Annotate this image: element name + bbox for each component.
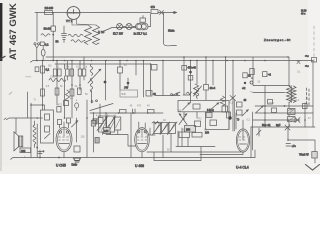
wire x131 xyxy=(130,113,132,158)
resistor R heater dropper (zigzag) xyxy=(85,25,92,45)
transformer secondary block 2 xyxy=(288,117,295,122)
junction xyxy=(36,147,38,149)
feedback coil dashes xyxy=(307,88,310,105)
capacitor C above lamps xyxy=(140,18,146,22)
resistor R21 xyxy=(250,69,254,75)
capacitor C12 xyxy=(286,144,291,147)
capacitor C11 xyxy=(67,118,71,123)
wires under can xyxy=(184,112,197,120)
tuning capacitor CV2 xyxy=(107,116,115,132)
capacitor C10 xyxy=(58,120,62,125)
trimmer CV3 xyxy=(115,117,121,130)
capacitor C7 (dot) xyxy=(127,82,130,85)
tube V3 UCL4 (output) xyxy=(236,129,249,152)
X mark mid xyxy=(230,96,236,101)
wire drop x42.5 xyxy=(42,61,44,111)
resistor R31 xyxy=(222,106,228,112)
wire drop x150.5 xyxy=(150,64,152,95)
pins above V1 xyxy=(60,122,69,128)
resistor R6b xyxy=(78,69,81,76)
wire y113 xyxy=(90,112,163,114)
wire left vertical xyxy=(36,13,38,42)
resistor R20 xyxy=(263,72,267,77)
coil in can 2 xyxy=(45,126,50,132)
trimmer CV4 xyxy=(154,123,161,134)
electrolytic C (oval) xyxy=(41,49,45,56)
capacitor C6 xyxy=(118,67,123,73)
resistor R30 zigzag xyxy=(220,96,224,106)
mains plug P xyxy=(34,43,36,45)
transformer secondary block 1 xyxy=(288,109,295,115)
capacitor C10b xyxy=(57,107,61,113)
capacitor block 32+32 box xyxy=(51,26,56,31)
wire drop x64.5 xyxy=(65,61,68,119)
resistor R22 hatched xyxy=(312,152,317,159)
wire drop x143.5 xyxy=(143,61,145,98)
resistor R11 xyxy=(74,146,80,152)
resistor R27b (dark) xyxy=(93,119,97,124)
tick mark margin xyxy=(26,76,32,78)
junction blob xyxy=(228,116,231,119)
resistor R7 xyxy=(70,89,74,96)
antenna terminal right edge xyxy=(313,26,315,62)
IF can T1 xyxy=(41,110,54,143)
wire: top mains rail xyxy=(35,12,173,14)
resistor 473 on rail xyxy=(151,10,158,14)
tick mark margin 2 xyxy=(9,92,12,95)
dial lamp La1 xyxy=(117,24,123,30)
electrolytic C+ xyxy=(38,150,42,158)
rectifier tube U1 (circle) xyxy=(67,7,80,20)
capacitor C13 xyxy=(182,66,187,71)
wires mid verticals xyxy=(87,100,106,158)
wires right grid xyxy=(251,106,315,127)
zigzag small xyxy=(152,122,159,125)
resistor R19 xyxy=(243,73,247,78)
output transformer Tr primary xyxy=(30,103,32,158)
dial lamp La2 xyxy=(126,24,132,30)
resistor R25 xyxy=(204,85,209,91)
resistor R34 xyxy=(272,108,277,113)
resistor R33 xyxy=(268,100,273,105)
wire drop x136 xyxy=(135,61,137,76)
output to ground chain xyxy=(288,127,315,163)
coil box on wire xyxy=(120,110,127,114)
resistor R9 xyxy=(146,91,152,97)
resistor R14 (hatched) xyxy=(104,128,111,134)
resistor R15 (hatched box) xyxy=(185,126,196,133)
variable arrow inside can xyxy=(183,103,191,111)
capacitor C 0,1 xyxy=(40,42,44,46)
wire x227 xyxy=(225,57,227,112)
tube V1 UCH5 xyxy=(56,127,72,151)
resistor R1 xyxy=(41,66,45,73)
coil box inside can xyxy=(193,104,200,109)
wire right of V1 xyxy=(76,118,78,142)
resistor R3b xyxy=(58,69,61,76)
osc coil L3 xyxy=(196,88,199,98)
resistor R18 xyxy=(303,104,308,109)
pins above V2 xyxy=(139,122,145,128)
variable arrow xyxy=(256,106,264,113)
osc can box xyxy=(178,101,229,112)
wire lamp chain xyxy=(104,28,136,32)
resistor R26 xyxy=(64,101,69,106)
wire right of V3 xyxy=(253,112,260,150)
bus B (main) xyxy=(30,61,313,63)
resistor squiggle c xyxy=(41,34,50,37)
wire drop x72 xyxy=(72,57,84,118)
capacitor C16 xyxy=(227,112,231,118)
capacitor C15 xyxy=(237,110,243,115)
resistor R27 (dark) xyxy=(95,138,99,144)
bus C xyxy=(55,63,150,65)
variable arrow in can 2 xyxy=(210,103,219,111)
arrow at end of top rail xyxy=(173,12,176,14)
resistor R7b xyxy=(78,88,82,95)
wire xyxy=(123,14,151,27)
wire drop x105.5 xyxy=(105,61,107,101)
coil L1 squiggle xyxy=(49,79,66,82)
wire to speaker xyxy=(6,92,42,133)
capacitor C8 xyxy=(133,109,136,114)
IF can box (dashed) xyxy=(120,90,138,97)
resistor squiggle b xyxy=(71,40,85,43)
coil L2 antenna (loops) xyxy=(90,64,93,75)
resistor R6 xyxy=(70,69,73,76)
smudge top-left margin xyxy=(1,56,6,59)
cap small oval xyxy=(75,103,79,108)
trimmer CV5 xyxy=(162,123,169,134)
ground arrow V xyxy=(306,165,320,171)
coil in can xyxy=(45,114,50,120)
resistor R0 xyxy=(35,67,39,72)
speaker field coil box xyxy=(20,148,31,153)
wire x234.5 xyxy=(234,100,236,131)
node: dial rail drop xyxy=(160,11,164,15)
resistor R4 xyxy=(55,88,59,95)
bus A xyxy=(46,56,288,58)
wire top of trafo xyxy=(31,105,45,110)
wire drop x157 xyxy=(162,61,164,96)
X at 287,127 xyxy=(285,125,290,130)
capacitor C14 xyxy=(237,102,243,107)
wire drop x233 xyxy=(232,61,234,132)
resistor R2 xyxy=(41,89,45,96)
binding edge dark strip xyxy=(0,3,2,61)
piezo symbol xyxy=(74,158,81,162)
tube V2 UBF xyxy=(135,128,150,152)
wire drop x213 xyxy=(212,61,214,86)
band switch S2 xyxy=(155,94,190,97)
bottom rail xyxy=(13,157,255,159)
X crossing xyxy=(179,114,187,125)
wire drop x53 xyxy=(52,13,54,27)
resistor R5 xyxy=(66,69,69,76)
wire drop x190.5 xyxy=(190,61,192,104)
resistor R8 zigzag xyxy=(66,90,70,101)
wire drop x206 xyxy=(205,57,207,100)
resistor R28 (hatched) xyxy=(206,113,212,118)
resistor R24 zigzag variable xyxy=(194,84,199,96)
resistor R6c xyxy=(82,69,85,76)
resistor R23 xyxy=(188,76,193,81)
resistor R12 xyxy=(91,121,95,127)
electrolytic C+ (bar stack) xyxy=(62,34,67,40)
junction dots xyxy=(264,105,266,107)
paper background xyxy=(0,0,320,174)
trimmer CV6 xyxy=(169,123,176,134)
variable arrow through L2 xyxy=(88,69,101,83)
wires under V2 xyxy=(149,128,155,135)
zigzag small right xyxy=(186,92,192,95)
box R17 xyxy=(192,133,202,138)
fuse Si on top rail xyxy=(45,11,53,15)
resistor R29 xyxy=(210,120,217,126)
dial lamps La3 La4 (twin) xyxy=(136,23,149,30)
junction dots row1 xyxy=(42,60,44,62)
output transformer primary coil xyxy=(287,86,292,102)
resistor R3 xyxy=(53,69,56,76)
coil box 2 xyxy=(148,110,155,114)
wave switch lever xyxy=(90,104,113,111)
wire under tuning gang xyxy=(103,130,137,146)
tuning capacitor CV1 xyxy=(99,116,107,132)
wire drop x57 xyxy=(56,61,58,106)
resistor R32 xyxy=(195,121,201,127)
box R16 xyxy=(179,132,190,138)
resistor squiggle a xyxy=(68,34,83,37)
loudspeaker LS xyxy=(14,132,19,151)
variable arrow xyxy=(72,121,79,128)
resistor R13 xyxy=(98,118,103,124)
variable arrow in can T1 xyxy=(45,134,51,139)
X mark xyxy=(295,118,300,123)
wire y92.5 xyxy=(253,92,285,94)
wire drop x184 xyxy=(183,57,185,95)
wire drop x197 xyxy=(196,61,198,85)
variable arrow 2 xyxy=(242,110,249,117)
junction dots xyxy=(162,60,164,62)
resistor R10 xyxy=(152,65,158,71)
